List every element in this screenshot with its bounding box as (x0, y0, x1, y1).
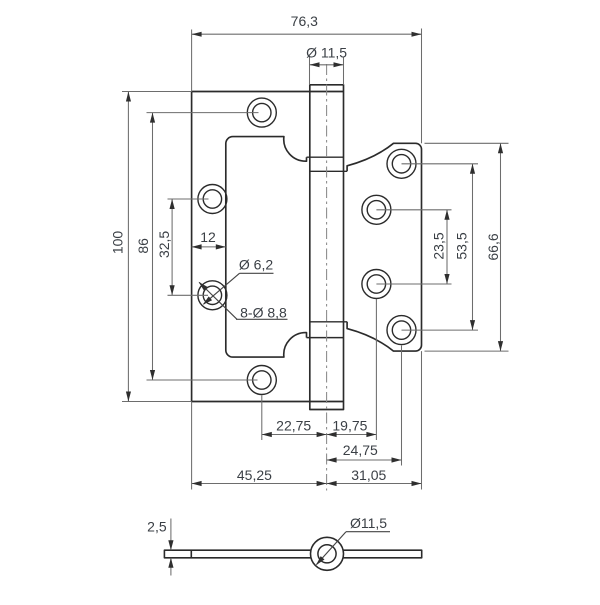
dimension 45,25 (192, 483, 327, 485)
right hinge leaf outline (347, 143, 421, 351)
dimension 12 (192, 246, 226, 248)
dimension Ø 11,5 (barrel) (310, 64, 344, 66)
dimension 53,5 extensions (402, 163, 479, 165)
screw hole 8 (right leaf bottom) (387, 316, 416, 345)
svg-text:22,75: 22,75 (276, 418, 311, 434)
svg-text:Ø 11,5: Ø 11,5 (306, 45, 347, 61)
screw hole 2 (left leaf upper-middle) (198, 185, 227, 214)
svg-text:53,5: 53,5 (454, 232, 470, 259)
left leaf recess contour (226, 137, 307, 358)
dimension 23,5 (446, 210, 448, 284)
dimension 32,5 (171, 199, 173, 295)
svg-text:76,3: 76,3 (291, 13, 318, 29)
dimension 76,3 extension right (421, 29, 423, 144)
dimension Ø 11,5 extension lines (309, 57, 311, 85)
side view leaf strip (164, 550, 421, 558)
svg-text:Ø 6,2: Ø 6,2 (239, 257, 273, 273)
barrel knuckle joint line upper (307, 156, 344, 158)
dimension 86 extensions (147, 112, 259, 114)
screw hole 5 (right leaf top) (387, 149, 416, 178)
svg-text:8-Ø 8,8: 8-Ø 8,8 (240, 304, 287, 320)
svg-text:45,25: 45,25 (237, 467, 272, 483)
screw hole 1 (left leaf top) (247, 98, 276, 127)
svg-text:86: 86 (135, 238, 151, 254)
svg-text:23,5: 23,5 (431, 232, 447, 259)
barrel knuckle joint line lower (310, 321, 347, 323)
svg-text:2,5: 2,5 (147, 519, 167, 535)
dimension 23,5 extensions (376, 209, 451, 211)
extension below hole col 376.4 (375, 299, 377, 440)
dimension 19,75 (327, 434, 377, 436)
screw hole 7 (right leaf lower-middle) (362, 270, 391, 299)
dimension 86 (152, 113, 154, 380)
dimension 53,5 (472, 164, 474, 330)
svg-text:12: 12 (200, 229, 216, 245)
side view barrel circle (311, 537, 344, 570)
side view pin hole circle (318, 545, 336, 563)
screw hole 6 (right leaf upper-middle) (362, 195, 391, 224)
dimension 100 (127, 92, 129, 402)
extension below hole col 401.5 (401, 346, 403, 466)
dimension 76,3 extension left (191, 30, 193, 92)
screw hole 3 (left leaf lower-middle, referenced) (198, 281, 227, 310)
dimension 66,6 (500, 143, 502, 351)
extension below left leaf edge (191, 402, 193, 490)
barrel center line (dash-dot) (326, 64, 328, 491)
side view leaf joint line (190, 550, 192, 558)
svg-text:24,75: 24,75 (343, 442, 378, 458)
dimension 31,05 (327, 483, 422, 485)
dimension 76,3 (192, 33, 422, 35)
extension below hole col 261.8 (261, 396, 263, 441)
dimension 100 extensions (122, 91, 192, 93)
svg-text:Ø11,5: Ø11,5 (350, 515, 387, 531)
dimension 32,5 extensions (168, 198, 209, 200)
hinge barrel (knuckle pin column) (310, 85, 344, 410)
screw hole 4 (left leaf bottom) (247, 366, 276, 395)
svg-text:100: 100 (110, 231, 126, 255)
svg-text:32,5: 32,5 (156, 231, 172, 258)
dimension 22,75 (262, 434, 327, 436)
dimension 2,5 (thickness) (170, 519, 172, 551)
barrel knuckle joint line lower-2 (307, 337, 344, 339)
dimension 24,75 (327, 459, 402, 461)
barrel knuckle joint line upper-2 (310, 170, 347, 172)
dimension 66,6 extensions (425, 142, 509, 144)
svg-text:19,75: 19,75 (332, 418, 367, 434)
extension below right leaf edge (421, 351, 423, 489)
left hinge leaf outline (192, 92, 344, 402)
svg-text:31,05: 31,05 (351, 467, 386, 483)
svg-text:66,6: 66,6 (485, 233, 501, 260)
